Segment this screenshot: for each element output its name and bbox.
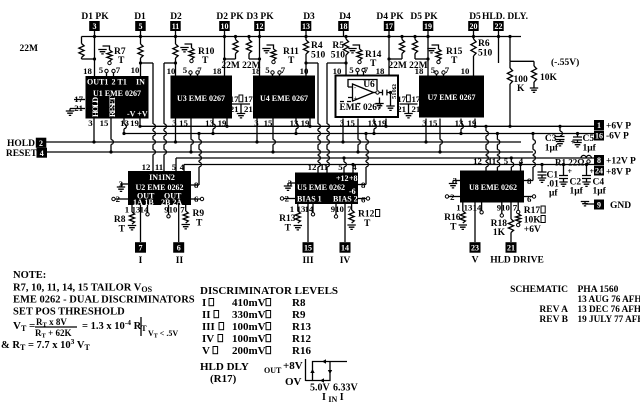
svg-text:+12V P: +12V P (606, 157, 636, 167)
svg-text:R4: R4 (311, 41, 323, 51)
svg-text:K: K (517, 84, 525, 94)
svg-text:510: 510 (478, 49, 493, 59)
svg-text:C5: C5 (583, 134, 595, 144)
svg-text:12: 12 (142, 162, 151, 172)
svg-text:17: 17 (397, 94, 406, 104)
svg-text:17: 17 (412, 94, 421, 104)
svg-text:5: 5 (349, 65, 354, 75)
svg-text:R1 22Ω: R1 22Ω (555, 158, 584, 168)
svg-text:200mV: 200mV (232, 345, 266, 357)
svg-text:GND: GND (610, 201, 631, 211)
svg-text:10K: 10K (524, 216, 542, 226)
svg-text:SCHEMATIC: SCHEMATIC (510, 285, 568, 295)
svg-text:R17: R17 (524, 206, 541, 216)
svg-text:HLD. DLY.: HLD. DLY. (482, 12, 528, 22)
svg-text:22M: 22M (20, 44, 39, 54)
svg-text:13: 13 (302, 22, 310, 31)
svg-text:4: 4 (352, 162, 357, 172)
svg-text:D4: D4 (339, 12, 351, 22)
svg-text:13: 13 (120, 118, 129, 128)
svg-text:IV: IV (202, 333, 214, 345)
svg-text:D5 PK: D5 PK (410, 12, 438, 22)
svg-text:HLD DLY: HLD DLY (200, 361, 249, 373)
svg-text:13: 13 (464, 203, 473, 213)
svg-text:T1: T1 (118, 78, 127, 87)
svg-text:II: II (202, 309, 211, 321)
svg-text:3: 3 (93, 22, 97, 31)
svg-text:12: 12 (473, 156, 482, 166)
svg-text:7: 7 (197, 65, 202, 75)
svg-text:6: 6 (177, 244, 181, 253)
svg-text:330mV: 330mV (232, 309, 266, 321)
svg-text:D2: D2 (170, 12, 182, 22)
svg-text:16: 16 (595, 132, 603, 141)
svg-text:D2 PK: D2 PK (216, 12, 244, 22)
svg-text:1μf: 1μf (593, 187, 607, 197)
svg-text:5: 5 (504, 156, 509, 166)
svg-text:I: I (202, 297, 206, 309)
svg-text:10: 10 (333, 66, 342, 76)
svg-text:R9: R9 (292, 309, 306, 321)
svg-text:U3 EME 0267: U3 EME 0267 (177, 94, 225, 103)
svg-text:5: 5 (99, 65, 104, 75)
svg-text:II: II (176, 256, 184, 266)
svg-text:5: 5 (338, 162, 343, 172)
svg-text:R12: R12 (358, 210, 375, 220)
svg-text:NOTE:: NOTE: (13, 270, 46, 281)
svg-text:100mV: 100mV (232, 333, 266, 345)
svg-text:HLD DRIVE: HLD DRIVE (490, 256, 544, 266)
svg-text:1: 1 (456, 203, 460, 213)
svg-text:24: 24 (595, 167, 603, 176)
svg-text:D4 PK: D4 PK (376, 12, 404, 22)
svg-text:510: 510 (311, 51, 326, 61)
svg-text:R9: R9 (193, 209, 205, 219)
svg-text:11: 11 (172, 22, 180, 31)
svg-text:17: 17 (244, 94, 253, 104)
svg-text:T: T (285, 224, 292, 234)
svg-text:OUT: OUT (264, 366, 282, 375)
svg-text:8: 8 (597, 156, 601, 165)
svg-text:5: 5 (139, 22, 143, 31)
svg-text:1: 1 (290, 204, 294, 214)
svg-text:15: 15 (304, 244, 312, 253)
svg-text:12: 12 (308, 162, 317, 172)
svg-text:6: 6 (361, 195, 366, 205)
svg-text:7: 7 (281, 65, 286, 75)
svg-text:21: 21 (507, 244, 515, 253)
svg-text:-: - (354, 86, 356, 92)
svg-text:IV: IV (340, 256, 351, 266)
svg-text:11: 11 (320, 162, 328, 172)
svg-text:T: T (288, 56, 295, 66)
svg-text:4: 4 (40, 149, 44, 158)
svg-text:III: III (202, 321, 215, 333)
svg-text:12: 12 (256, 22, 264, 31)
svg-text:R16: R16 (444, 213, 461, 223)
svg-text:V: V (472, 256, 479, 266)
svg-text:+8: +8 (349, 174, 358, 183)
svg-text:1: 1 (597, 121, 601, 130)
svg-text:VT < .5V: VT < .5V (148, 329, 178, 340)
svg-text:7: 7 (116, 65, 121, 75)
svg-text:10: 10 (167, 66, 176, 76)
svg-text:T: T (364, 219, 371, 229)
svg-text:RESET: RESET (108, 95, 117, 117)
svg-text:+12: +12 (336, 174, 349, 183)
svg-text:4: 4 (519, 156, 524, 166)
svg-text:4: 4 (180, 162, 185, 172)
svg-text:+8V P: +8V P (606, 168, 631, 178)
svg-text:21: 21 (397, 104, 406, 114)
svg-text:T: T (196, 219, 203, 229)
svg-text:1μf: 1μf (545, 144, 559, 154)
svg-text:10: 10 (461, 66, 470, 76)
svg-text:R7, 10, 11, 14, 15 TAILOR VOS: R7, 10, 11, 14, 15 TAILOR VOS (13, 283, 153, 295)
svg-text:HOLD: HOLD (7, 139, 35, 149)
svg-text:OUT1: OUT1 (87, 78, 108, 87)
svg-text:19: 19 (424, 22, 432, 31)
svg-text:R8: R8 (292, 297, 306, 309)
svg-text:7: 7 (180, 205, 185, 215)
svg-text:13 DEC 76 AFH: 13 DEC 76 AFH (578, 304, 640, 314)
svg-text:R13: R13 (292, 321, 311, 333)
svg-text:OV: OV (285, 376, 302, 388)
svg-text:10K: 10K (540, 73, 558, 83)
svg-text:IN: IN (136, 78, 145, 87)
svg-text:-6V P: -6V P (606, 132, 629, 142)
svg-text:18: 18 (213, 66, 222, 76)
svg-text:C3: C3 (545, 134, 557, 144)
svg-text:T: T (450, 223, 457, 233)
svg-text:U8 EME 0262: U8 EME 0262 (469, 183, 517, 192)
svg-text:T: T (119, 225, 126, 235)
svg-text:BIAS 2: BIAS 2 (333, 195, 358, 204)
svg-text:I: I (139, 256, 143, 266)
svg-text:DISCRIMINATOR LEVELS: DISCRIMINATOR LEVELS (200, 285, 338, 297)
svg-text:+: + (568, 167, 573, 176)
svg-text:21: 21 (412, 104, 421, 114)
svg-text:D5: D5 (469, 12, 481, 22)
svg-text:18: 18 (340, 22, 348, 31)
svg-text:+: + (571, 138, 576, 147)
svg-text:15: 15 (100, 118, 109, 128)
svg-text:R8: R8 (114, 215, 126, 225)
svg-text:2: 2 (112, 78, 116, 87)
svg-text:RT + 62K: RT + 62K (35, 328, 71, 340)
svg-text:510: 510 (331, 51, 346, 61)
svg-text:19: 19 (130, 118, 139, 128)
svg-text:11: 11 (155, 162, 163, 172)
svg-text:BIAS 1: BIAS 1 (297, 195, 322, 204)
svg-text:1: 1 (125, 205, 129, 215)
svg-text:18: 18 (252, 66, 261, 76)
svg-text:13 AUG 76 AFH: 13 AUG 76 AFH (578, 294, 640, 304)
svg-text:10: 10 (501, 203, 510, 213)
svg-text:+8V: +8V (283, 360, 303, 372)
svg-text:6: 6 (527, 194, 532, 204)
svg-text:R13: R13 (279, 214, 296, 224)
svg-text:21: 21 (230, 104, 239, 114)
svg-text:EME 0262 - DUAL DISCRIMINATORS: EME 0262 - DUAL DISCRIMINATORS (13, 295, 195, 306)
svg-text:410mV: 410mV (232, 297, 266, 309)
svg-text:7: 7 (445, 65, 450, 75)
svg-text:& RT = 7.7 x 103 VT: & RT = 7.7 x 103 VT (1, 337, 90, 352)
svg-text:11: 11 (488, 156, 496, 166)
svg-text:U4 EME 0267: U4 EME 0267 (260, 94, 308, 103)
svg-text:20: 20 (470, 22, 478, 31)
svg-text:(-.55V): (-.55V) (551, 57, 579, 68)
svg-text:+: + (354, 96, 358, 102)
svg-text:18: 18 (415, 66, 424, 76)
svg-text:21: 21 (244, 104, 253, 114)
svg-text:17: 17 (385, 22, 393, 31)
svg-text:III: III (302, 256, 313, 266)
svg-text:R12: R12 (292, 333, 311, 345)
svg-text:22: 22 (495, 22, 503, 31)
svg-text:T: T (202, 56, 209, 66)
svg-text:V: V (202, 345, 210, 357)
svg-text:9: 9 (597, 201, 601, 210)
svg-text:+6V: +6V (524, 225, 541, 235)
svg-text:23: 23 (471, 244, 479, 253)
svg-text:1μf: 1μf (583, 144, 597, 154)
svg-text:R16: R16 (292, 345, 311, 357)
svg-text:D1 PK: D1 PK (81, 12, 109, 22)
svg-text:3: 3 (88, 118, 93, 128)
svg-text:HOLD: HOLD (91, 97, 100, 117)
svg-text:= 1.3 x 10-4 RT: = 1.3 x 10-4 RT (82, 318, 147, 333)
svg-text:5: 5 (265, 65, 270, 75)
svg-text:SET POS THRESHOLD: SET POS THRESHOLD (13, 307, 125, 318)
svg-text:14: 14 (341, 244, 349, 253)
svg-text:T: T (451, 56, 458, 66)
svg-text:+: + (590, 167, 595, 176)
svg-text:5: 5 (183, 65, 188, 75)
svg-text:D3: D3 (303, 12, 315, 22)
svg-text:2: 2 (39, 139, 43, 148)
svg-text:EME 0267: EME 0267 (340, 103, 382, 113)
svg-text:1μf: 1μf (570, 187, 584, 197)
svg-text:10: 10 (221, 22, 229, 31)
svg-text:R6: R6 (478, 39, 490, 49)
svg-text:μf: μf (549, 189, 558, 199)
svg-text:D1: D1 (134, 12, 146, 22)
svg-text:R5: R5 (332, 41, 344, 51)
svg-text:19 JULY 77 AFH: 19 JULY 77 AFH (578, 314, 640, 324)
svg-text:18: 18 (376, 66, 385, 76)
svg-text:REV B: REV B (539, 315, 568, 325)
svg-text:U7 EME 0267: U7 EME 0267 (428, 93, 476, 102)
svg-text:10: 10 (169, 205, 178, 215)
svg-text:10: 10 (300, 66, 309, 76)
svg-text:7: 7 (139, 244, 143, 253)
svg-text:1K: 1K (493, 228, 506, 238)
svg-text:10: 10 (131, 65, 140, 75)
svg-text:RESET: RESET (6, 149, 38, 159)
svg-text:18: 18 (83, 66, 92, 76)
svg-text:REV A: REV A (539, 305, 568, 315)
svg-text:17: 17 (230, 94, 239, 104)
svg-text:+6V P: +6V P (606, 122, 631, 132)
svg-text:U5 EME 0262: U5 EME 0262 (297, 183, 345, 192)
svg-text:(R17): (R17) (210, 373, 237, 385)
svg-text:IN1IN2: IN1IN2 (149, 173, 175, 182)
svg-text:D3 PK: D3 PK (246, 12, 274, 22)
svg-text:5: 5 (172, 162, 177, 172)
svg-text:100mV: 100mV (232, 321, 266, 333)
svg-text:5: 5 (431, 65, 436, 75)
svg-text:U1 EME 0267: U1 EME 0267 (93, 89, 141, 98)
